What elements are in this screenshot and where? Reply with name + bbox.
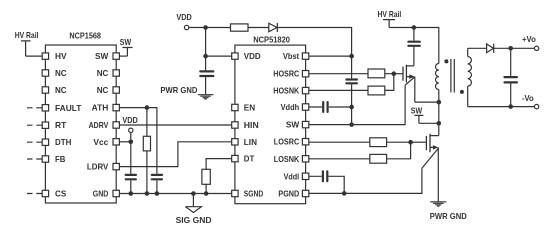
wire VDD drop to U2 VDD pin xyxy=(206,28,232,57)
net label HV Rail (right) xyxy=(378,9,402,27)
U2 pin Vbst (right) xyxy=(302,53,308,59)
net label SW (power stage) xyxy=(411,106,424,124)
node junction at 205.6,56.1 xyxy=(203,54,208,59)
U1 pin NC (right) xyxy=(113,87,119,93)
U1 pin SW (right) xyxy=(113,53,119,59)
U1 pin ATH (right) xyxy=(113,104,119,110)
capacitor C3 (VDD to PWR GND) xyxy=(200,56,213,94)
resistor R4 (HOSRC gate) xyxy=(368,69,385,78)
U1 pin FAULT (left) xyxy=(42,105,48,111)
node junction at 351.6,107.0 xyxy=(349,105,354,110)
U1 pin Vcc (right) xyxy=(113,139,119,145)
diode D1 (bootstrap) xyxy=(269,23,278,32)
U1 pin HV (left) xyxy=(42,53,48,59)
terminal +Vo xyxy=(522,34,539,51)
svg-text:NCP51820: NCP51820 xyxy=(253,34,290,44)
U1 pin CS (left) xyxy=(42,190,48,196)
node junction at 393.8,73.7 xyxy=(392,71,397,76)
svg-text:NC: NC xyxy=(55,68,67,78)
dashed stub CS xyxy=(27,193,42,195)
net label HV Rail (left) xyxy=(15,30,39,56)
svg-text:ATH: ATH xyxy=(92,103,109,113)
node junction at 206.1,193.5 xyxy=(204,191,209,196)
node junction at 351.6,56.1 xyxy=(349,54,354,59)
net label SW (U1 top) xyxy=(120,37,133,56)
svg-text:LIN: LIN xyxy=(244,137,257,147)
svg-text:-Vo: -Vo xyxy=(522,93,534,103)
U2 pin Vddh (right) xyxy=(302,104,308,110)
svg-text:Vcc: Vcc xyxy=(93,137,108,147)
U2 pin LIN (left) xyxy=(232,139,238,145)
svg-text:DT: DT xyxy=(244,154,255,164)
U1 pin NC (right) xyxy=(113,70,119,76)
U2 pin PGND (right) xyxy=(302,190,308,196)
svg-text:LOSRC: LOSRC xyxy=(274,137,299,147)
svg-text:VDD: VDD xyxy=(176,12,191,22)
svg-text:+Vo: +Vo xyxy=(522,34,536,44)
svg-text:PWR GND: PWR GND xyxy=(430,211,467,221)
U1 pin GND (right) xyxy=(113,190,119,196)
node junction at 410.6,141.7 xyxy=(408,140,413,145)
svg-text:Vbst: Vbst xyxy=(283,51,300,61)
wire SW pin to SW label xyxy=(119,55,127,57)
capacitor C5 (Vddh to SW) xyxy=(309,102,352,112)
svg-text:PWR GND: PWR GND xyxy=(160,85,197,95)
U2 pin DT (left) xyxy=(232,155,238,161)
wire D1 to Vbst node xyxy=(277,28,351,79)
wire VDD terminal to Vcc xyxy=(130,133,132,142)
node junction at 130.8,141.8 xyxy=(129,140,134,145)
U2 pin Vddl (right) xyxy=(302,173,308,179)
node junction at 413.9,27.5 xyxy=(412,25,417,30)
dashed stub FB xyxy=(27,158,42,160)
svg-text:HV: HV xyxy=(55,51,67,61)
IC U2 NCP51820 body xyxy=(235,45,306,204)
svg-text:LOSNK: LOSNK xyxy=(274,154,299,164)
wire D2 to +Vo xyxy=(494,47,535,49)
svg-text:FB: FB xyxy=(55,154,65,164)
wire SW tap to switch node xyxy=(419,122,439,124)
svg-text:SIG GND: SIG GND xyxy=(176,215,212,225)
transformer T1 secondary xyxy=(468,48,472,106)
terminal -Vo xyxy=(522,93,539,109)
U2 pin HOSRC (right) xyxy=(302,71,308,77)
wire R2 to D1 xyxy=(248,27,269,29)
wire LDRV to LIN xyxy=(119,142,231,167)
wire HV Rail to HV pin xyxy=(26,55,43,57)
svg-text:DTH: DTH xyxy=(55,137,71,147)
resistor R7 (LOSNK gate) xyxy=(370,154,387,163)
U1 pin RT (left) xyxy=(42,122,48,128)
capacitor C1 (Vcc to GND) xyxy=(126,142,136,194)
ground PWR GND (left) xyxy=(160,85,213,99)
svg-text:HV Rail: HV Rail xyxy=(378,9,402,19)
svg-text:EN: EN xyxy=(244,103,255,113)
node junction at 146.9,193.5 xyxy=(145,191,150,196)
resistor R2 (VDD series) xyxy=(231,24,249,31)
wire DT node xyxy=(206,159,232,170)
transformer T1 secondary phase dot xyxy=(460,90,464,94)
transformer T1 core xyxy=(451,59,454,93)
U2 pin EN (left) xyxy=(232,104,238,110)
IC U1 NCP1568 body xyxy=(45,45,116,203)
capacitor C4 (bootstrap Vbst-SW) xyxy=(346,80,357,125)
U1 pin ADRV (right) xyxy=(113,122,119,128)
resistor R3 (DT to GND) xyxy=(202,169,210,193)
svg-text:HOSNK: HOSNK xyxy=(273,86,299,96)
wire PGND return xyxy=(309,168,422,193)
U2 pin LOSRC (right) xyxy=(302,139,308,145)
node junction at 130.8,193.5 xyxy=(129,191,134,196)
U2 pin HOSNK (right) xyxy=(302,87,308,93)
svg-text:ADRV: ADRV xyxy=(89,120,109,130)
ground PWR GND (right) xyxy=(430,202,467,221)
svg-text:VDD: VDD xyxy=(244,51,261,61)
svg-text:FAULT: FAULT xyxy=(55,103,81,113)
svg-text:PGND: PGND xyxy=(278,189,299,199)
node junction at 510.7,106.6 xyxy=(508,104,513,109)
wire GND rail xyxy=(119,193,231,195)
svg-text:LDRV: LDRV xyxy=(87,162,109,172)
node junction at 193.4,193.5 xyxy=(191,191,196,196)
resistor R5 (HOSNK gate) xyxy=(368,86,385,95)
wire Vcc stub xyxy=(119,141,130,143)
capacitor C7 (output) xyxy=(505,48,517,106)
wire LOSRC xyxy=(309,141,411,143)
U1 pin NC (left) xyxy=(42,87,48,93)
transformer T1 primary xyxy=(436,64,439,103)
svg-text:CS: CS xyxy=(55,189,67,199)
U2 pin HIN (left) xyxy=(232,122,238,128)
resistor R1 (ATH to GND) xyxy=(143,108,150,194)
wire Vbst pin xyxy=(309,55,352,57)
svg-text:NC: NC xyxy=(97,68,109,78)
wire HV Rail to clamp cap and primary xyxy=(389,28,439,64)
U2 pin LOSNK (right) xyxy=(302,156,308,162)
dashed stub DTH xyxy=(27,141,42,143)
capacitor C2 (ATH to GND) xyxy=(152,175,162,179)
svg-text:SGND: SGND xyxy=(244,189,263,199)
transformer T1 primary phase dot xyxy=(444,59,448,63)
dashed stub RT xyxy=(27,124,42,126)
wire VDD terminal to R2 xyxy=(189,27,231,29)
wire C2 to GND rail xyxy=(156,180,158,193)
wire secondary to D2 xyxy=(468,47,487,49)
U2 pin SGND (left) xyxy=(232,190,238,196)
U2 pin SW (right) xyxy=(302,121,308,127)
capacitor C6 (clamp) xyxy=(408,28,419,66)
node junction at 205.6,27.5 xyxy=(203,25,208,30)
svg-text:Vddh: Vddh xyxy=(281,102,300,112)
svg-text:SW: SW xyxy=(411,106,422,116)
wire HOSRC xyxy=(309,73,394,75)
svg-text:NC: NC xyxy=(55,85,67,95)
wire ADRV to HIN xyxy=(119,124,231,126)
dashed stub FAULT xyxy=(27,107,42,109)
U1 pin LDRV (right) xyxy=(113,163,119,169)
diode D2 (output rectifier) xyxy=(487,44,494,53)
terminal VDD (U1) xyxy=(122,115,137,133)
svg-text:Vddl: Vddl xyxy=(284,171,300,181)
svg-text:SW: SW xyxy=(95,51,108,61)
svg-text:SW: SW xyxy=(120,37,131,47)
svg-text:HIN: HIN xyxy=(244,120,259,130)
node junction at 156.9,193.5 xyxy=(155,191,160,196)
wire HOSNK xyxy=(309,74,394,91)
node junction at 438.8,123.3 xyxy=(437,121,442,126)
svg-text:HOSRC: HOSRC xyxy=(273,69,299,79)
node junction at 146.9,107.6 xyxy=(145,105,150,110)
wire LOSNK xyxy=(309,142,411,159)
transistor Q2 (low-side) xyxy=(411,134,439,202)
node junction at 510.7,48.3 xyxy=(508,46,513,51)
transistor Q1 (high-side) xyxy=(394,65,439,102)
svg-text:GND: GND xyxy=(93,189,109,199)
wire ATH node xyxy=(119,108,156,174)
U1 pin DTH (left) xyxy=(42,139,48,145)
node junction at 344.2,193.4 xyxy=(342,191,347,196)
terminal VDD (top) xyxy=(176,12,191,30)
svg-text:HV Rail: HV Rail xyxy=(15,30,39,40)
resistor R6 (LOSRC gate) xyxy=(370,138,387,147)
svg-text:RT: RT xyxy=(55,120,66,130)
wire switch node vertical xyxy=(438,102,440,136)
U1 pin FB (left) xyxy=(42,156,48,162)
svg-text:NC: NC xyxy=(97,85,109,95)
wire SW pin to Q1 source xyxy=(309,85,405,124)
capacitor C8 (Vddl to PGND) xyxy=(309,171,344,193)
node junction at 351.6,124.6 xyxy=(349,122,354,127)
svg-text:VDD: VDD xyxy=(122,115,137,125)
wire secondary return to -Vo xyxy=(468,106,535,108)
svg-text:SW: SW xyxy=(286,120,299,130)
ground SIG GND xyxy=(176,194,212,226)
node junction at 438.8,102.1 xyxy=(437,100,442,105)
U2 pin VDD (left) xyxy=(232,53,238,59)
U1 pin NC (left) xyxy=(42,70,48,76)
svg-text:NCP1568: NCP1568 xyxy=(69,31,101,41)
